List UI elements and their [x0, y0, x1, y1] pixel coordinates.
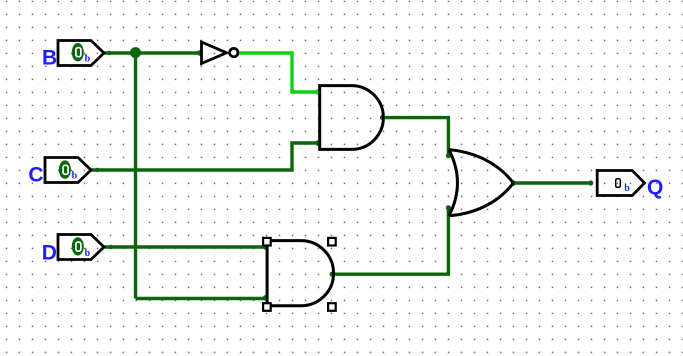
wire AND1 output to OR upper input [384, 118, 449, 156]
input pin C body [45, 158, 91, 183]
output pin Q body [597, 171, 644, 196]
wire junction to NOT input [136, 51, 203, 54]
svg-text:b: b [624, 183, 630, 194]
node dot at D pin tip [108, 245, 112, 249]
svg-text:D: D [42, 241, 57, 264]
wire D to AND2 upper input [104, 245, 267, 248]
svg-text:C: C [28, 164, 43, 187]
svg-text:b: b [85, 54, 91, 65]
svg-text:b: b [72, 171, 78, 182]
NOT gate U1 bubble [230, 48, 238, 56]
input pin D body [58, 235, 104, 260]
OR gate U4 [449, 150, 514, 216]
svg-text:b: b [85, 248, 91, 259]
wire C to AND1 lower input [91, 143, 320, 170]
node dot at NOT input [197, 50, 203, 56]
node dot AND2 bottom input [263, 295, 269, 301]
wire vertical from B junction down [134, 53, 137, 299]
node dot AND2 output [330, 272, 335, 277]
wire bottom horizontal to AND2 lower input [136, 297, 268, 300]
selection handle bottom-left [263, 303, 271, 311]
pin C value oval [59, 160, 71, 178]
node dot OR bottom input [446, 205, 451, 210]
node dot AND1 top input (high) [315, 89, 321, 95]
node dot AND1 output [380, 115, 385, 120]
node dot at B pin tip [107, 51, 111, 55]
pin D value oval [72, 237, 84, 255]
node dot OR top input [446, 153, 451, 158]
pin C value 0 [63, 165, 68, 174]
pin D value 0 [76, 242, 81, 251]
wire OR output to Q [513, 181, 590, 184]
node dot at C pin tip [95, 168, 99, 172]
selection handle top-left [263, 238, 271, 246]
wire AND2 output to OR lower input [334, 208, 449, 275]
selection handle top-right [328, 238, 336, 246]
svg-text:B: B [42, 47, 57, 70]
junction dot at B fanout [130, 47, 141, 58]
node dot AND2 top input [263, 244, 269, 250]
wire NOT output high segment [240, 53, 320, 92]
svg-text:Q: Q [647, 176, 663, 199]
pin Q value 0 [616, 179, 621, 188]
pin B value oval [72, 43, 84, 61]
pin B value 0 [76, 48, 81, 57]
node dot AND1 bottom input [315, 140, 321, 146]
node dot OR output [511, 180, 516, 185]
input pin B body [58, 41, 104, 66]
node dot at Q pin input [588, 180, 593, 185]
wire B tip to junction [104, 51, 136, 54]
NOT gate U1 triangle [202, 42, 227, 64]
selection handle bottom-right [328, 303, 336, 311]
AND gate U2 (top) [320, 86, 384, 150]
AND gate U3 (bottom, selected) [267, 241, 333, 306]
